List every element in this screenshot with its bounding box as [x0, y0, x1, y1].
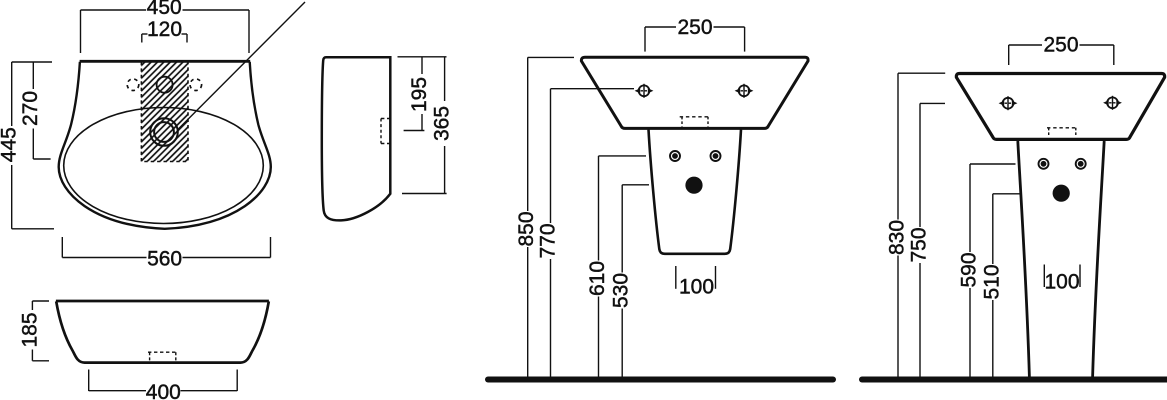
- drain outer circle: [150, 118, 178, 146]
- pedestal fixing hole right: [1076, 159, 1086, 169]
- drain hole: [1053, 185, 1070, 202]
- leader line to drain: [177, 2, 305, 130]
- dimension 770: [537, 89, 635, 377]
- basin outline: [581, 57, 808, 128]
- hidden fixing detail (dashed): [148, 352, 177, 360]
- hatched tap area: [141, 62, 188, 162]
- centre tap hole: [157, 77, 173, 93]
- svg-text:195: 195: [408, 77, 431, 112]
- hidden drain detail (dashed): [1047, 128, 1078, 137]
- floor line: [862, 377, 1167, 383]
- dimension 850: [515, 57, 574, 377]
- side outline: [322, 57, 391, 220]
- right optional tap hole (dashed): [190, 79, 202, 91]
- dimension 445: [0, 62, 54, 229]
- dimension 270: [19, 62, 50, 159]
- dimension 100: [676, 266, 716, 299]
- svg-text:365: 365: [431, 106, 454, 141]
- dimension 450: [81, 0, 250, 53]
- dimension 590: [958, 164, 1016, 377]
- hatched area dashed border: [141, 62, 188, 162]
- hidden drain detail (dashed): [680, 117, 711, 127]
- dimension 250 top: [645, 16, 745, 52]
- svg-text:510: 510: [980, 264, 1003, 299]
- pedestal fixing hole left: [670, 151, 680, 161]
- dimension 120: [142, 18, 187, 42]
- right bolt hole: [735, 84, 754, 98]
- svg-text:770: 770: [537, 223, 560, 258]
- svg-text:450: 450: [147, 0, 182, 19]
- basin front outline: [56, 301, 269, 362]
- basin body: [581, 57, 808, 128]
- dimension 195: [398, 57, 447, 131]
- left optional tap hole (dashed): [127, 79, 139, 91]
- svg-text:185: 185: [18, 312, 41, 347]
- pedestal fixing hole left: [1039, 159, 1049, 169]
- svg-text:850: 850: [515, 211, 538, 246]
- svg-text:445: 445: [0, 127, 21, 162]
- dimension 185: [18, 301, 49, 361]
- dimension 560: [62, 237, 270, 270]
- svg-text:100: 100: [1044, 271, 1079, 294]
- dimension 250 top: [1009, 34, 1114, 66]
- pedestal fixing hole right: [711, 151, 721, 161]
- drain hole: [685, 177, 702, 194]
- svg-text:830: 830: [886, 220, 909, 255]
- basin outline: [956, 74, 1164, 140]
- dimension 100: [1044, 265, 1080, 294]
- svg-text:250: 250: [1043, 34, 1078, 57]
- svg-text:120: 120: [147, 18, 182, 41]
- right bolt hole: [1103, 96, 1122, 110]
- basin outer outline: [59, 62, 271, 229]
- dimension 610: [586, 156, 646, 377]
- dimension 750: [908, 103, 946, 377]
- svg-text:530: 530: [610, 273, 633, 308]
- floor line: [488, 377, 833, 383]
- dimension 510: [980, 194, 1019, 377]
- svg-text:590: 590: [958, 252, 981, 287]
- svg-text:610: 610: [586, 261, 609, 296]
- drain inner circle: [154, 122, 174, 142]
- basin body: [956, 73, 1164, 139]
- left bolt hole: [999, 96, 1018, 110]
- bowl ellipse: [64, 108, 264, 224]
- basin top edge: [80, 60, 251, 63]
- basin front top edge: [56, 300, 269, 303]
- svg-text:250: 250: [677, 16, 712, 39]
- dimension 830: [886, 73, 946, 377]
- svg-text:750: 750: [908, 227, 931, 262]
- pedestal outline: [1018, 141, 1104, 377]
- svg-text:270: 270: [19, 91, 42, 126]
- svg-text:560: 560: [147, 247, 182, 270]
- dimension 365: [402, 57, 454, 194]
- svg-text:400: 400: [146, 381, 181, 400]
- dimension 530: [610, 185, 649, 377]
- dimension 400: [89, 370, 238, 400]
- svg-text:100: 100: [679, 276, 714, 299]
- half pedestal outline: [649, 130, 742, 254]
- hidden tap hole (dashed): [381, 119, 391, 144]
- left bolt hole: [635, 84, 654, 98]
